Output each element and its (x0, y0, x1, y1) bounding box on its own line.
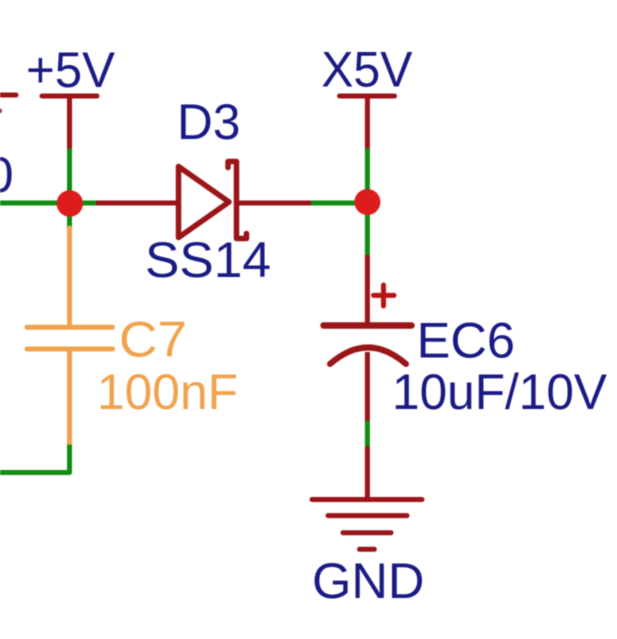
svg-text:C7: C7 (119, 311, 187, 368)
wire X5V stem to node B (365, 151, 370, 203)
svg-text:X5V: X5V (321, 41, 413, 98)
wire EC6 to GND (365, 421, 370, 449)
wire +5V stem to node A (67, 151, 72, 204)
capacitor EC6 plates (324, 326, 412, 365)
junction node B (354, 189, 380, 215)
svg-text:0: 0 (0, 146, 14, 203)
power symbol X5V (340, 96, 395, 151)
svg-text:EC6: EC6 (417, 312, 515, 369)
svg-text:10uF/10V: 10uF/10V (392, 363, 607, 420)
power symbol +5V (42, 96, 97, 151)
partial power bar P? (cut off at left edge) (0, 93, 16, 98)
wire left edge to node A and onward (0, 201, 96, 206)
capacitor C7 (27, 228, 113, 445)
wire diode to node B (311, 201, 367, 206)
svg-text:GND: GND (312, 552, 425, 609)
diode D3 cathode pin (237, 201, 312, 206)
svg-text:D3: D3 (177, 93, 240, 150)
svg-text:+5V: +5V (26, 41, 115, 98)
capacitor EC6 top pin (365, 255, 370, 323)
capacitor EC6 bottom pin (365, 352, 370, 421)
junction node A (57, 190, 83, 216)
diode D3 anode pin (96, 201, 178, 206)
ground symbol GND (312, 449, 422, 550)
wire C7 to left edge (elbow) (0, 445, 70, 473)
polarity plus sign (374, 285, 395, 306)
svg-text:100nF: 100nF (97, 363, 238, 420)
wire node A down to C7 (67, 203, 72, 228)
svg-text:SS14: SS14 (145, 231, 271, 288)
diode D3 body (Schottky) (179, 162, 247, 239)
wire node B down to EC6 (365, 202, 370, 255)
